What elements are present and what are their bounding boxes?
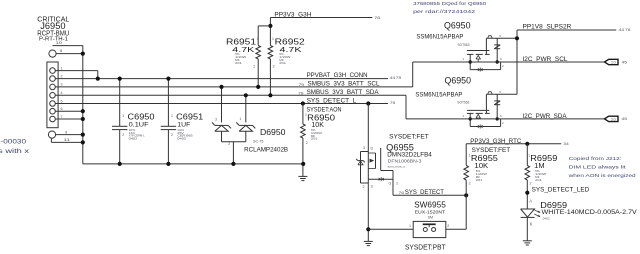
svg-text:SYSDET:FET: SYSDET:FET <box>389 133 429 140</box>
svg-text:1: 1 <box>272 37 274 41</box>
svg-text:79: 79 <box>299 83 305 87</box>
svg-text:79: 79 <box>298 92 304 96</box>
svg-text:34: 34 <box>563 142 569 146</box>
svg-text:DFN1006BN-3: DFN1006BN-3 <box>388 158 423 163</box>
svg-text:3: 3 <box>61 83 63 87</box>
svg-text:0402: 0402 <box>129 137 138 141</box>
svg-text:D: D <box>371 146 374 150</box>
svg-text:44: 44 <box>619 28 625 32</box>
svg-text:SC-75: SC-75 <box>253 140 264 144</box>
svg-text:SM: SM <box>428 216 434 220</box>
svg-text:SOT563: SOT563 <box>457 101 469 105</box>
svg-text:76: 76 <box>625 28 631 32</box>
svg-text:201: 201 <box>535 178 542 182</box>
svg-text:EUX-1520NT: EUX-1520NT <box>415 210 446 215</box>
svg-text:1-00030: 1-00030 <box>0 139 26 146</box>
svg-text:2: 2 <box>306 141 308 145</box>
svg-text:10: 10 <box>611 61 617 65</box>
svg-text:201: 201 <box>311 137 318 141</box>
svg-text:P-RT-TH-1: P-RT-TH-1 <box>39 36 68 42</box>
svg-text:1: 1 <box>122 114 124 118</box>
svg-text:1: 1 <box>305 113 307 117</box>
svg-text:SOT563: SOT563 <box>458 43 470 47</box>
svg-text:A: A <box>529 198 532 203</box>
svg-text:SW6955: SW6955 <box>414 200 446 209</box>
svg-text:1: 1 <box>528 154 530 158</box>
svg-text:1: 1 <box>469 154 471 158</box>
svg-text:per rdar://37241042: per rdar://37241042 <box>413 9 476 14</box>
svg-text:5: 5 <box>61 99 63 103</box>
svg-text:45: 45 <box>622 117 628 121</box>
svg-text:2: 2 <box>61 74 63 78</box>
svg-text:PPVBAT_G3H_CONN: PPVBAT_G3H_CONN <box>307 72 368 79</box>
svg-text:37680855 DQed for Q6950: 37680855 DQed for Q6950 <box>413 1 487 6</box>
svg-text:Q6950: Q6950 <box>444 21 471 31</box>
svg-text:2: 2 <box>530 181 532 185</box>
svg-text:2: 2 <box>469 181 471 185</box>
svg-text:SYSDET:PBT: SYSDET:PBT <box>405 245 446 252</box>
svg-text:6: 6 <box>61 107 63 111</box>
svg-text:7: 7 <box>61 115 63 119</box>
svg-text:C6951: C6951 <box>176 111 203 121</box>
svg-text:2: 2 <box>171 133 173 137</box>
svg-text:R6955: R6955 <box>471 153 498 163</box>
svg-text:I2C_PWR_SDA: I2C_PWR_SDA <box>523 113 568 120</box>
svg-text:G: G <box>389 181 392 185</box>
svg-text:SYS_DETECT_LED: SYS_DETECT_LED <box>532 187 590 194</box>
svg-text:44: 44 <box>390 76 396 80</box>
svg-text:0402: 0402 <box>177 137 186 141</box>
svg-text:1: 1 <box>171 114 173 118</box>
svg-text:es with x: es with x <box>0 148 30 155</box>
svg-text:4: 4 <box>61 91 63 95</box>
svg-text:PP1V8_SLPS2R: PP1V8_SLPS2R <box>523 23 572 30</box>
svg-text:K: K <box>530 222 533 227</box>
svg-text:PP3V3_G3H_RTC: PP3V3_G3H_RTC <box>470 138 521 145</box>
svg-text:SYS_DETECT: SYS_DETECT <box>405 189 444 196</box>
svg-text:45: 45 <box>622 60 628 64</box>
svg-text:201: 201 <box>279 61 286 65</box>
svg-text:RCLAMP2402B: RCLAMP2402B <box>244 147 289 154</box>
svg-text:10: 10 <box>611 117 617 121</box>
svg-text:76: 76 <box>399 191 405 195</box>
svg-text:PP3V3_G3H: PP3V3_G3H <box>274 12 311 19</box>
svg-text:DIM LED always lit: DIM LED always lit <box>569 165 627 170</box>
svg-text:0402: 0402 <box>543 217 550 221</box>
svg-text:10: 10 <box>56 40 64 45</box>
svg-text:2: 2 <box>363 185 365 189</box>
svg-text:79: 79 <box>396 76 402 80</box>
svg-text:201: 201 <box>235 61 242 65</box>
svg-text:3: 3 <box>363 146 365 150</box>
svg-text:R6952: R6952 <box>275 36 305 46</box>
svg-text:2: 2 <box>253 64 255 68</box>
svg-text:1: 1 <box>396 181 398 185</box>
svg-text:76: 76 <box>374 16 380 20</box>
svg-text:2: 2 <box>273 64 275 68</box>
svg-text:when AON is energized: when AON is energized <box>569 173 637 178</box>
svg-text:1: 1 <box>61 66 63 70</box>
svg-text:SMBUS_3V3_BATT_SDA: SMBUS_3V3_BATT_SDA <box>307 89 380 96</box>
svg-text:R6951: R6951 <box>226 36 256 46</box>
svg-text:1: 1 <box>257 37 259 41</box>
svg-text:SSM6N15APBAP: SSM6N15APBAP <box>416 34 463 41</box>
svg-text:SYS_DETECT_L: SYS_DETECT_L <box>307 97 357 104</box>
svg-text:3: 3 <box>215 117 217 121</box>
svg-text:WHITE-140MCD-0.005A-2.7V: WHITE-140MCD-0.005A-2.7V <box>542 209 638 216</box>
svg-text:75: 75 <box>390 101 396 105</box>
svg-text:C6950: C6950 <box>128 111 155 121</box>
svg-text:R6950: R6950 <box>307 113 335 123</box>
svg-text:2: 2 <box>447 224 449 228</box>
svg-text:R6959: R6959 <box>530 153 557 163</box>
svg-text:D6950: D6950 <box>260 128 286 137</box>
svg-text:Copied from J212:: Copied from J212: <box>569 156 622 161</box>
svg-text:2: 2 <box>228 142 230 146</box>
svg-text:sym_mos_x: sym_mos_x <box>388 165 406 169</box>
svg-text:1: 1 <box>409 224 411 228</box>
svg-text:Q6950: Q6950 <box>445 76 472 86</box>
svg-text:SSM6N15APBAP: SSM6N15APBAP <box>415 91 462 98</box>
svg-text:201: 201 <box>476 178 483 182</box>
svg-text:SMBUS_3V3_BATT_SCL: SMBUS_3V3_BATT_SCL <box>308 81 380 88</box>
svg-text:2: 2 <box>122 133 124 137</box>
svg-text:1: 1 <box>240 117 242 121</box>
svg-text:I2C_PWR_SCL: I2C_PWR_SCL <box>523 56 568 63</box>
